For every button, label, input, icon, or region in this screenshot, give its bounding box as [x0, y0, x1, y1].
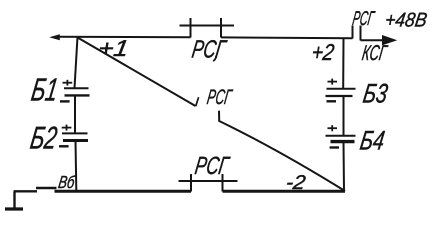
svg-text:РСГ: РСГ — [190, 36, 229, 64]
wire: Б2 down to bottom rail — [75, 141, 78, 190]
contact РСГ (output gap, top right) — [353, 26, 361, 41]
arrowhead right (+48В output) — [382, 35, 397, 45]
contact РСГ (diagonal changeover, lower blade) — [219, 111, 345, 191]
battery Б4 — [326, 125, 356, 147]
wire: ground to bottom rail — [14, 188, 57, 191]
wire: bottom rail left segment — [55, 190, 192, 193]
node +2: wire down to Б3 — [342, 38, 344, 88]
wire: Б1 to Б2 — [74, 96, 76, 134]
svg-text:+2: +2 — [310, 39, 336, 65]
wire: Б4 down to node -2 — [343, 142, 346, 192]
node +1: junction, wire down to Б1 — [75, 37, 78, 88]
svg-text:РСГ: РСГ — [193, 152, 232, 180]
svg-text:-2: -2 — [285, 172, 307, 194]
battery Б3 — [326, 79, 356, 102]
contact РСГ (bottom rail contact) — [179, 174, 238, 192]
wire: top bus (+1 rail) with left arrow — [56, 36, 191, 38]
ground symbol (Вб battery bus earth) — [5, 192, 23, 210]
wire: top bus right segment — [221, 36, 353, 39]
contact РСГ (diagonal changeover, upper blade) — [78, 38, 199, 107]
arrowhead left (to load, minus output) — [49, 34, 60, 40]
wire: bottom rail right segment — [223, 190, 346, 193]
svg-text:+48В: +48В — [384, 10, 429, 32]
battery Б1 — [60, 80, 90, 102]
wire: output arrow to +48В — [361, 39, 386, 41]
svg-text:Б3: Б3 — [361, 78, 390, 109]
contact РСГ (top bus contact) — [180, 18, 235, 38]
svg-text:Б4: Б4 — [358, 125, 387, 156]
svg-text:РСГ: РСГ — [206, 86, 235, 109]
label РСГ top: Г descender hook — [213, 56, 216, 61]
svg-text:+1: +1 — [97, 35, 131, 61]
battery Б2 — [59, 125, 88, 147]
wire: Б3 to Б4 — [343, 96, 345, 136]
